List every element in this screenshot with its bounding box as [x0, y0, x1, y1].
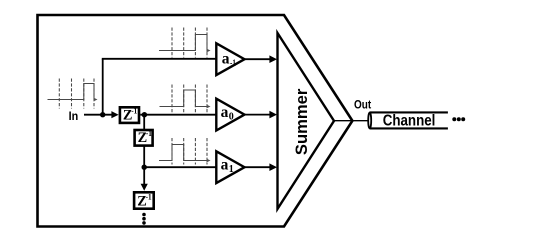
- wire to a1: [144, 166, 216, 168]
- svg-text:1: 1: [229, 164, 234, 175]
- svg-text:a: a: [221, 104, 229, 121]
- waveform a-1: [159, 28, 211, 58]
- svg-text:Out: Out: [354, 100, 371, 112]
- amplifier a0: [216, 99, 244, 131]
- arrowhead into Z3: [141, 184, 148, 191]
- channel: [368, 112, 448, 129]
- wire to a-1: [102, 58, 217, 60]
- arrowhead into Z1: [111, 111, 118, 118]
- wire a0 to summer: [245, 114, 272, 116]
- svg-text:a: a: [221, 156, 229, 173]
- wire In to Z1: [84, 114, 114, 116]
- svg-text:0: 0: [229, 112, 234, 123]
- waveform a1: [159, 138, 211, 165]
- wire a-1 to summer: [245, 58, 272, 60]
- wire a1 to summer: [245, 166, 272, 168]
- delay Z1: [120, 105, 139, 123]
- svg-text:Channel: Channel: [383, 112, 436, 129]
- delay Z2: [135, 128, 153, 146]
- svg-text:-1: -1: [146, 128, 152, 138]
- arrowhead a0: [269, 111, 277, 119]
- waveform a0: [160, 85, 211, 113]
- arrowhead a-1: [269, 55, 277, 63]
- ellipsis below Z3: [142, 213, 146, 217]
- svg-text:Summer: Summer: [292, 88, 311, 155]
- svg-text:In: In: [69, 109, 79, 123]
- wire branch up: [102, 59, 104, 115]
- arrowhead a1: [269, 163, 277, 171]
- ellipsis after channel: [452, 117, 456, 121]
- junction node after Z1: [142, 112, 147, 117]
- svg-text:-1: -1: [146, 191, 152, 201]
- node on chain: [142, 165, 147, 170]
- svg-text:-1: -1: [230, 59, 236, 69]
- wire summer to channel: [334, 120, 370, 122]
- svg-text:-1: -1: [131, 105, 137, 115]
- amplifier a1: [216, 151, 244, 183]
- waveform In: [48, 79, 98, 109]
- node on In wire: [100, 112, 105, 117]
- svg-text:a: a: [222, 50, 230, 67]
- amplifier a-1: [216, 43, 244, 75]
- wire Z2 down to node: [143, 146, 145, 185]
- wire Z1 to a0: [140, 114, 216, 116]
- delay Z3: [134, 191, 154, 209]
- wire down to Z2: [143, 115, 145, 130]
- outer system boundary pentagon: [38, 15, 353, 227]
- summer: [278, 33, 335, 209]
